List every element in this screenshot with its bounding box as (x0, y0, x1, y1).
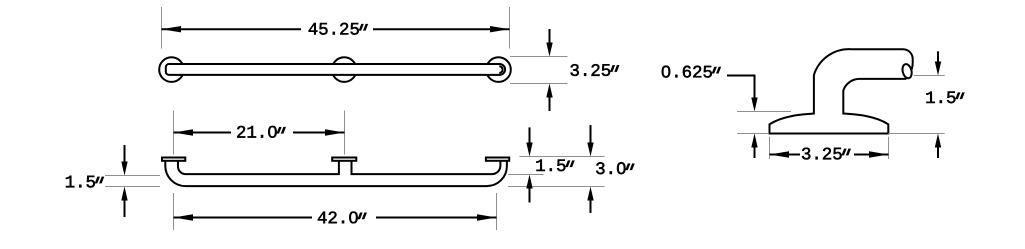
arrowhead 45.25 left (162, 26, 182, 32)
extension line right for detail 3.25 (888, 137, 890, 159)
arrow down 3.25 (plan) (549, 29, 551, 51)
label 0.62 (662, 66, 721, 78)
dimension line 42.0 left segment (174, 217, 313, 219)
arrowhead 21.0 right (325, 129, 345, 135)
label right 1.5 (536, 159, 574, 171)
dimension line 42.0 right segment (376, 217, 497, 219)
reference line 0.625 top (737, 111, 791, 113)
flange base (detail) (770, 113, 889, 133)
reference line bottom for 3.25 (plan) (510, 83, 568, 85)
dimension line detail 3.25 right segment (854, 154, 889, 156)
extension line left for 42.0 (173, 193, 175, 230)
arrow up 0.625 (754, 139, 756, 158)
arrow up 3.0 (590, 192, 592, 213)
arrowhead 45.25 right (490, 26, 510, 32)
label detail 3.25 (802, 148, 851, 160)
leader line 0.625 (727, 76, 755, 100)
extension line right for 45.25 (509, 7, 511, 49)
flange circle right (plan) (486, 57, 511, 82)
reference line top for left 1.5 (105, 175, 160, 177)
reference line bottom for left 1.5 (105, 186, 160, 188)
arrow up left 1.5 (124, 192, 126, 217)
arrow up 3.25 (plan) (549, 89, 551, 111)
arrowhead detail 3.25 left (770, 151, 790, 157)
reference line detail 1.5 bottom (888, 133, 944, 135)
reference line detail 1.5 top (914, 75, 945, 77)
dimension line detail 3.25 left segment (770, 154, 801, 156)
arrow down 0.625 (751, 98, 757, 112)
extension line right for 42.0 (496, 193, 498, 230)
right mounting plate (486, 158, 509, 161)
left mounting plate (162, 158, 185, 161)
reference line middle for right 1.5 (508, 174, 544, 176)
label 3 (596, 162, 634, 174)
flange circle middle (plan) (332, 57, 357, 82)
tube right end inner wall arc (plan) (499, 66, 502, 73)
label 21 (237, 126, 285, 138)
arrow down detail 1.5 (937, 51, 939, 70)
arrowhead 42.0 left (174, 214, 194, 220)
flange circle left (plan) (159, 57, 184, 82)
arrow up right 1.5 (529, 180, 531, 203)
label detail 1.5 (926, 91, 964, 103)
reference line top for 3.25 (plan) (510, 56, 568, 58)
dimension line 21.0 right segment (293, 132, 345, 134)
label 42 (318, 211, 367, 223)
dimension line 45.25 right segment (373, 28, 510, 30)
arrow down left 1.5 (124, 145, 126, 170)
reference line top (wall) for right 1.5 and 3.0 (520, 156, 605, 158)
dimension line 45.25 left segment (162, 28, 302, 30)
extension line left for detail 3.25 (769, 137, 771, 159)
middle mounting plate (332, 158, 356, 161)
arrowhead 21.0 left (174, 129, 194, 135)
grab bar tube outline (elevation) (165, 159, 507, 186)
tube elbow (detail) (814, 49, 913, 116)
label 3.25 (plan) (571, 64, 620, 76)
arrow up detail 1.5 (937, 139, 939, 158)
reference line bottom for 3.0 (508, 186, 605, 188)
label left 1.5 (66, 176, 104, 188)
dimension line 21.0 left segment (174, 132, 232, 134)
arrow down 3.0 (590, 125, 592, 151)
extension line left for 21.0 (173, 111, 175, 155)
grab bar tube (plan) (166, 64, 505, 75)
extension line right for 21.0 (344, 111, 346, 155)
arrowhead 42.0 right (477, 214, 497, 220)
arrowhead detail 3.25 right (869, 151, 889, 157)
arrow down right 1.5 (529, 127, 531, 151)
extension line left for 45.25 (161, 7, 163, 49)
reference line 0.625 bottom (737, 133, 769, 135)
tube end opening ellipse (detail) (901, 63, 913, 79)
label 45.25 (309, 23, 368, 35)
